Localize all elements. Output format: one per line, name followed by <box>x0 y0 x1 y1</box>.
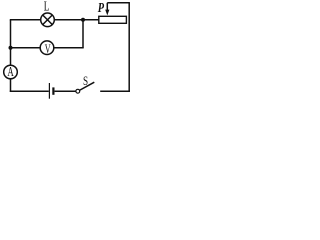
wire: bottom horizontal from switch pivot to battery <box>55 90 76 92</box>
wire: bottom horizontal from battery to bottom-left corner <box>10 90 49 92</box>
wire: left vertical from top-left corner down to ammeter <box>10 20 12 65</box>
svg-text:L: L <box>44 0 50 14</box>
junction node on left wire <box>9 46 13 50</box>
wire: bottom horizontal from right wire to switch <box>100 90 130 92</box>
wire: voltmeter row horizontal from voltmeter to left wire <box>11 47 41 49</box>
junction node on top wire <box>81 18 85 22</box>
rheostat P body <box>99 16 127 23</box>
wire: top horizontal from lamp to rheostat left terminal <box>54 19 99 21</box>
voltmeter U1 V <box>40 41 54 57</box>
wire: top horizontal from wiper to right wire <box>107 2 130 4</box>
wire: vertical branch from top-wire junction down to voltmeter row <box>82 20 84 48</box>
wire: top horizontal from top-left corner to lamp <box>10 19 41 21</box>
battery cell B1: short thick negative plate <box>52 87 54 94</box>
svg-text:A: A <box>7 66 14 80</box>
svg-text:S: S <box>83 74 88 88</box>
switch S pivot <box>76 89 80 93</box>
wire: voltmeter row horizontal from branch corner to voltmeter <box>54 47 84 49</box>
battery cell B1: long positive plate <box>48 83 50 99</box>
svg-text:V: V <box>45 42 51 56</box>
switch S lever <box>79 82 94 90</box>
lamp L <box>41 13 55 27</box>
ammeter A <box>4 65 18 80</box>
rheostat P wiper arrow <box>105 3 109 16</box>
wire: left vertical from ammeter down to bottom-left corner <box>10 79 12 92</box>
wire: right vertical <box>128 3 130 92</box>
svg-text:P: P <box>98 0 105 15</box>
